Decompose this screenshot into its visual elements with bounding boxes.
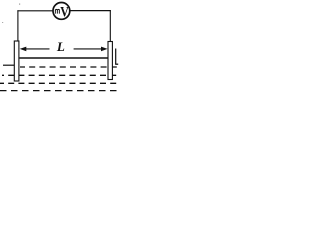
dimension arrow right segment [74, 48, 104, 50]
scan speck left margin [2, 22, 3, 23]
vessel right wall stub [115, 49, 117, 65]
liquid surface solid line between electrodes [19, 57, 108, 59]
wire right vertical segment [109, 10, 111, 42]
liquid surface left outer piece [3, 64, 14, 66]
millivoltmeter M1 label mV [55, 9, 59, 13]
liquid dashed row 2 [2, 74, 119, 76]
liquid dashed row 1 [20, 66, 119, 68]
millivoltmeter M1 circle [53, 3, 70, 20]
background [0, 0, 120, 96]
svg-text:L: L [56, 40, 65, 54]
dimension arrow right head [101, 47, 108, 52]
electrode rod right [108, 42, 112, 80]
wire top-right horizontal segment [70, 10, 111, 12]
wire left vertical segment [17, 10, 19, 41]
svg-text:V: V [60, 4, 69, 20]
scan speck top-left [19, 4, 20, 5]
dimension arrow left head [20, 47, 27, 52]
dimension arrow left segment [24, 48, 50, 50]
liquid dashed row 4 [0, 90, 119, 92]
wire top-left horizontal segment [17, 10, 52, 12]
electrode rod left [14, 41, 19, 81]
vessel right wall foot [115, 63, 118, 65]
liquid dashed row 3 [0, 82, 119, 84]
